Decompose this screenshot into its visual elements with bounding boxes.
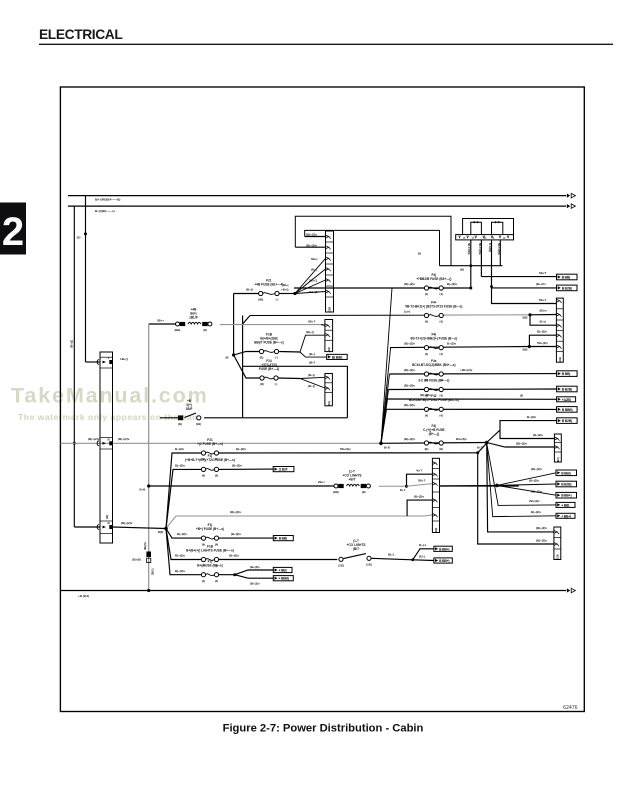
svg-text:BCKLBT-B(-L+2/B2 FUSE (B3—s): BCKLBT-B(-L+2/B2 FUSE (B3—s) <box>409 398 459 402</box>
wire r4 gray row <box>167 515 432 527</box>
wire to X8 pin2 <box>407 484 433 487</box>
wire r3 through to fan3 <box>440 485 519 487</box>
svg-text:(B): (B) <box>260 382 264 386</box>
wire fan2 to T11 <box>487 443 556 505</box>
junction r3 <box>405 485 408 488</box>
pin C of X1 <box>97 525 99 530</box>
svg-text:The watermark only appears on: The watermark only appears on the sam <box>18 412 200 422</box>
svg-text:5B+(: 5B+( <box>311 257 317 261</box>
svg-text:(B)+(2)v: (B)+(2)v <box>404 403 415 407</box>
pin blocks of X1 <box>109 360 112 364</box>
wire to switch S1 <box>160 417 178 419</box>
svg-text:(B(+(): (B(+() <box>306 330 314 334</box>
wire H265 <box>440 265 503 267</box>
wire enclosure box <box>243 366 348 418</box>
svg-text:ELECTRICAL: ELECTRICAL <box>39 27 122 42</box>
svg-text:B3+(2)v: B3+(2)v <box>456 437 467 441</box>
wire fanout to X4 <box>300 335 325 352</box>
bus B+ feed 1 <box>68 195 566 197</box>
svg-text:(B: (B <box>226 356 229 360</box>
svg-text:B BB+): B BB+) <box>439 559 449 563</box>
svg-text:(B+—(): (B+—() <box>429 432 439 436</box>
svg-text:(4): (4) <box>440 320 443 324</box>
svg-text:B B2B): B B2B) <box>562 286 572 290</box>
svg-text:(B+c)/v: (B+c)/v <box>536 282 546 286</box>
svg-text:+B/T: +B/T <box>349 478 356 482</box>
svg-text:(B)+(2)v: (B)+(2)v <box>531 490 542 494</box>
inline coil L2 <box>333 470 370 495</box>
svg-text:(5B): (5B) <box>258 298 263 302</box>
wire fan2 to X6 pin1 <box>500 430 554 439</box>
fuse F43 <box>416 273 451 296</box>
junction R288 <box>469 287 472 290</box>
svg-text:(4): (4) <box>425 292 428 296</box>
connector X1 left column <box>100 352 113 543</box>
wire R409 row <box>387 408 557 410</box>
svg-text:B2B: B2B <box>556 554 560 559</box>
svg-text:B)+(2)v: B)+(2)v <box>175 569 185 573</box>
svg-text:+4B FUSE (B1+—4): +4B FUSE (B1+—4) <box>254 282 283 286</box>
svg-text:(B(+(B(: (B(+(B( <box>132 558 141 562</box>
svg-text:B)B: B)B <box>523 347 528 351</box>
svg-text:(B)+(2)v: (B)+(2)v <box>230 510 241 514</box>
svg-text:4(+T: 4(+T <box>416 469 422 473</box>
svg-text:B+B: B+B <box>140 487 146 491</box>
svg-text:B BB(: B BB( <box>279 537 288 541</box>
svg-text:(+B+B-T+(B+)(+T23 FUSE (B+—s): (+B+B-T+(B+)(+T23 FUSE (B+—s) <box>185 458 235 462</box>
svg-text:(B)+(2)v: (B)+(2)v <box>404 342 415 346</box>
svg-text:TakeManual.com: TakeManual.com <box>11 383 209 408</box>
wire fan3 feeds <box>497 473 556 486</box>
switch S1 <box>178 399 201 426</box>
wire F24 row <box>234 355 260 378</box>
wire r6 row <box>166 529 201 560</box>
svg-text:(B)+(2)v: (B)+(2)v <box>88 437 100 441</box>
wire r3 to junction <box>379 485 407 487</box>
svg-text:(B): (B) <box>362 490 366 494</box>
svg-text:5B-T2(B)v: 5B-T2(B)v <box>497 243 500 255</box>
svg-text:Figure 2-7: Power Distribution: Figure 2-7: Power Distribution - Cabin <box>223 723 424 735</box>
main junction P_fan <box>379 442 383 446</box>
wire R389 row <box>389 388 557 391</box>
svg-text:(B+(2)v: (B+(2)v <box>229 554 239 558</box>
svg-text:B+(2)v: B+(2)v <box>447 342 456 346</box>
svg-text:+7BB2/B FUSE (B3+—(): +7BB2/B FUSE (B3+—() <box>416 277 451 281</box>
terminal box T5 <box>557 397 576 402</box>
fuse F45 <box>411 332 458 355</box>
fuse F44 <box>405 300 462 323</box>
wire outer loop to fuse block <box>295 216 451 266</box>
svg-text:BB)/T FUSE (B+—s): BB)/T FUSE (B+—s) <box>254 340 284 344</box>
wire fuse block drop 2 <box>480 240 482 277</box>
wire fanout to X2 pins <box>295 269 326 294</box>
wire to terminal box T1 <box>481 276 556 278</box>
terminal box T4 <box>557 386 578 392</box>
svg-text:(B/T: (B/T <box>353 547 359 551</box>
wire F21 row <box>234 293 259 295</box>
svg-text:(B)+(2)v: (B)+(2)v <box>121 521 133 525</box>
wire fuse block drop 4 <box>499 240 501 266</box>
svg-text:(B+(2)v: (B+(2)v <box>414 495 424 499</box>
svg-text:5B-T2-BK2(+) (B2T3-3T23 FUSE (: 5B-T2-BK2(+) (B2T3-3T23 FUSE (B—s) <box>405 304 462 308</box>
svg-text:3B+(2): 3B+(2) <box>69 340 73 348</box>
svg-text:+A2B): +A2B) <box>562 398 571 402</box>
svg-text:B)+L: B)+L <box>388 553 395 557</box>
svg-text:(4): (4) <box>440 394 443 398</box>
svg-text:(B)+(2)v: (B)+(2)v <box>404 282 415 286</box>
wire branch to X8 pin3 <box>407 500 432 516</box>
svg-text:(B)+(2)v: (B)+(2)v <box>118 437 130 441</box>
svg-text:(B+(): (B+() <box>308 384 315 388</box>
junction r7 fork <box>233 573 236 576</box>
svg-text:(4): (4) <box>215 474 218 478</box>
wire F1B row <box>234 352 259 356</box>
svg-text:B)B: B)B <box>158 530 163 534</box>
svg-text:5B-T2(B)v: 5B-T2(B)v <box>467 243 470 255</box>
svg-text:B+T: B+T <box>400 488 406 492</box>
svg-text:B2B: B2B <box>558 357 562 362</box>
svg-text:(1 B2F: (1 B2F <box>279 468 288 472</box>
svg-text:+ BB): + BB) <box>279 569 287 573</box>
wire inner loop to X2 pin1 <box>305 236 326 238</box>
connector X3 <box>556 298 563 362</box>
terminal box T1 <box>557 274 578 280</box>
bus arrow <box>567 588 570 592</box>
junction F_L <box>164 527 168 531</box>
svg-text:2B(: 2B( <box>105 515 109 519</box>
wire fuse block drop 3 <box>492 240 557 304</box>
fuse F47 <box>423 424 445 451</box>
pin B of X1 <box>97 441 99 446</box>
svg-text:2B+<: 2B+< <box>318 480 325 484</box>
wire r1 row <box>166 453 201 529</box>
wire switch row to enclosure <box>204 417 347 419</box>
wire to X3 pin5 <box>529 346 556 348</box>
svg-text:(B)+(2)v: (B)+(2)v <box>536 526 547 530</box>
header rule <box>39 43 613 45</box>
svg-text:(B+(): (B+() <box>308 373 315 377</box>
svg-text:B)+(2)v: B)+(2)v <box>531 510 541 514</box>
wire R288 row <box>392 287 471 289</box>
svg-text:(B): (B) <box>425 447 429 451</box>
terminal box B2C <box>327 354 348 359</box>
svg-text:B2B: B2B <box>328 307 332 312</box>
svg-text:+ BB+): + BB+) <box>561 514 571 518</box>
svg-text:B BB+): B BB+) <box>439 547 449 551</box>
svg-text:B2(: B2( <box>327 347 331 351</box>
svg-text:BCKLBT-SC(2)/BBK (B3+—s): BCKLBT-SC(2)/BBK (B3+—s) <box>412 363 455 367</box>
terminal box T2 <box>557 285 578 291</box>
wire bundle <box>381 288 392 443</box>
svg-text:5B+T: 5B+T <box>418 478 425 482</box>
junction T1-ground <box>147 589 150 592</box>
svg-text:(-): (-) <box>275 356 278 360</box>
wire r1 to fan2 <box>478 443 487 453</box>
svg-text:(B+(2)v: (B+(2)v <box>232 463 242 467</box>
svg-text:(BB): (BB) <box>333 490 339 494</box>
terminal box BB1 <box>273 567 292 572</box>
wire fan2 to T12 <box>487 443 556 516</box>
junction W314 <box>528 313 531 316</box>
svg-text:+B (2)4(: +B (2)4( <box>78 594 89 598</box>
connector X6 <box>554 434 561 462</box>
bus arrow <box>567 204 570 208</box>
svg-text:B)+(2)v: B)+(2)v <box>177 532 187 536</box>
svg-text:(1B): (1B) <box>366 562 372 566</box>
connector X8 <box>432 458 439 532</box>
diagram border frame <box>60 87 584 712</box>
svg-text:(B): (B) <box>439 447 443 451</box>
connector X7 <box>554 527 561 560</box>
fuse F4s <box>412 359 455 382</box>
terminal box BB2 <box>273 576 293 581</box>
svg-text:(B)+(2)v: (B)+(2)v <box>420 393 431 397</box>
terminal box T7 <box>557 418 578 424</box>
terminal box T6 <box>557 407 578 413</box>
wire to X3 pin2 <box>530 314 556 316</box>
wire elbow to connector X1 pin 1 <box>86 361 101 363</box>
svg-text:5B+T: 5B+T <box>308 320 315 324</box>
svg-text:62476: 62476 <box>563 705 578 711</box>
svg-text:+B+( FUSE (B+—s): +B+( FUSE (B+—s) <box>196 527 224 531</box>
pin 1 of X1 <box>97 360 99 365</box>
svg-text:5B+T: 5B+T <box>539 298 547 302</box>
svg-text:(B): (B) <box>460 267 464 271</box>
svg-text:B( B(B): B( B(B) <box>332 355 342 359</box>
svg-text:3B(2)v: 3B(2)v <box>143 542 147 550</box>
svg-text:(B+(2)v: (B+(2)v <box>250 565 260 569</box>
fuse F42 <box>409 394 459 417</box>
gray feed wire G1 <box>61 442 382 444</box>
svg-text:B+(-L: B+(-L <box>419 543 427 547</box>
wire T1 elbow <box>149 323 176 325</box>
switch S2 <box>339 557 343 561</box>
junction r1-X7 branch <box>476 451 479 454</box>
fuse F46 <box>418 378 449 397</box>
svg-text:(B+T: (B+T <box>309 361 316 365</box>
wire X8 to fan3 <box>440 484 497 487</box>
wire elbow to connector X1 lower pin <box>74 526 100 528</box>
wire W314 long feed <box>250 314 424 316</box>
terminal box T10 <box>556 492 577 498</box>
terminal box BL2 <box>434 558 452 563</box>
wire R374 row <box>390 373 557 375</box>
gray trunk T1 <box>148 324 150 591</box>
svg-text:4B+(: 4B+( <box>282 283 288 287</box>
svg-text:(B+(2)v: (B+(2)v <box>231 532 241 536</box>
wire outer loop to X2 pin2 <box>295 246 325 248</box>
wire r2 row <box>166 469 201 528</box>
svg-text:FUSE (B+—1): FUSE (B+—1) <box>259 367 279 371</box>
fuse block loop <box>463 219 514 235</box>
svg-text:B BB(): B BB() <box>561 471 570 475</box>
svg-text:B)+(2)v: B)+(2)v <box>447 282 457 286</box>
inline connector on T1 <box>146 552 151 558</box>
wire r5 row <box>166 529 201 539</box>
svg-text:B): B) <box>418 252 421 256</box>
bus arrow <box>567 194 570 198</box>
terminal box T11 <box>556 502 575 507</box>
svg-text:5B+T: 5B+T <box>539 271 546 275</box>
wire R420 row from fan2 <box>487 421 557 443</box>
fuse F13b <box>196 523 224 546</box>
svg-text:(B)+(2)v: (B)+(2)v <box>531 467 542 471</box>
fuse F21b <box>197 438 223 461</box>
svg-text:B BB): B BB) <box>562 276 570 280</box>
svg-text:B B2B): B B2B) <box>562 388 572 392</box>
wire vline B <box>85 196 87 362</box>
svg-text:B(B: B(B <box>434 528 438 533</box>
fuse F24 <box>259 359 279 386</box>
svg-text:(B o(: (B o( <box>540 320 547 324</box>
wire gray to X4 pin1 <box>220 324 321 326</box>
svg-text:B3-L: B3-L <box>419 555 426 559</box>
svg-text:1BL/F: 1BL/F <box>189 316 198 320</box>
fuse F21 <box>254 278 283 301</box>
svg-text:(B)+(2)v: (B)+(2)v <box>516 441 527 445</box>
svg-text:(c)+(: (c)+( <box>404 309 410 313</box>
svg-text:(B)+(2)v: (B)+(2)v <box>404 368 415 372</box>
svg-text:+ BBB): + BBB) <box>279 577 289 581</box>
svg-text:(BB): (BB) <box>175 328 181 332</box>
svg-text:5B+(2)v: 5B+(2)v <box>340 447 351 451</box>
svg-text:(B)+c: (B)+c <box>540 309 548 313</box>
wire vline A <box>73 206 75 527</box>
svg-text:1B+(): 1B+() <box>120 357 128 361</box>
wire to terminal box T2 <box>492 287 557 288</box>
svg-text:(B): (B) <box>178 422 182 426</box>
wire r1 branch to X7 pin2 <box>478 453 554 544</box>
svg-text:2B+(2)v: 2B+(2)v <box>529 499 540 503</box>
wire fuse block drop 1 <box>470 240 472 288</box>
terminal box BL1 <box>434 546 452 551</box>
svg-text:B B2B): B B2B) <box>562 419 572 423</box>
chapter tab 2 <box>0 203 26 255</box>
terminal box B2F <box>273 467 294 472</box>
svg-text:2B(1): 2B(1) <box>151 568 155 575</box>
svg-text:B BB+): B BB+) <box>561 494 571 498</box>
svg-text:B BBB): B BBB) <box>562 408 573 412</box>
wire elbow to X8 pin1 <box>407 474 433 486</box>
svg-text:(B)+(2)v: (B)+(2)v <box>404 437 415 441</box>
wire to X3 pin4 <box>529 335 556 346</box>
svg-text:(B)+(2)v: (B)+(2)v <box>404 383 415 387</box>
connector X2 column <box>326 231 334 312</box>
svg-text:2: 2 <box>2 210 24 254</box>
svg-text:B+B: B+B <box>384 446 390 450</box>
wire r7 row <box>166 529 201 575</box>
svg-text:(4): (4) <box>215 542 218 546</box>
svg-text:B)+(2)v: B)+(2)v <box>236 447 246 451</box>
svg-text:B+(2)v: B+(2)v <box>175 447 184 451</box>
svg-text:(1B): (1B) <box>338 564 344 568</box>
wire X1 to F_L <box>113 527 167 529</box>
svg-text:B3(: B3( <box>556 457 560 461</box>
wire R399 row <box>388 398 557 400</box>
svg-text:(4): (4) <box>202 474 205 478</box>
svg-text:B+(B+(+() LIGHTS FUSE (B+—s): B+(B+(+() LIGHTS FUSE (B+—s) <box>186 548 234 552</box>
svg-text:B BB): B BB) <box>562 372 570 376</box>
svg-text:B B2B): B B2B) <box>561 483 571 487</box>
svg-text:(4): (4) <box>425 414 428 418</box>
junction fan3 <box>495 484 499 488</box>
svg-text:(4): (4) <box>425 352 428 356</box>
svg-text:+B+(): +B+() <box>281 287 289 291</box>
svg-text:(1B): (1B) <box>196 422 201 426</box>
wire fan2 down to X7 pin1 <box>487 443 554 532</box>
svg-text:3-C B3 FUSE (B+—s): 3-C B3 FUSE (B+—s) <box>418 378 449 382</box>
terminal box T12 <box>556 513 575 518</box>
svg-text:1B/F: 1B/F <box>186 407 193 411</box>
svg-text:(B+(2)v: (B+(2)v <box>250 582 260 586</box>
svg-text:(4): (4) <box>215 579 218 583</box>
svg-text:(4): (4) <box>440 352 443 356</box>
wire r3 row <box>149 485 334 487</box>
ground bus <box>61 590 567 592</box>
svg-text:(B)+(2)v: (B)+(2)v <box>536 538 547 542</box>
fuse F13c <box>197 560 223 583</box>
svg-text:(4): (4) <box>202 542 205 546</box>
svg-text:(B+(2)v: (B+(2)v <box>529 478 539 482</box>
terminal box T3 <box>557 371 578 377</box>
svg-text:B-T2(B): B-T2(B) <box>488 243 491 252</box>
svg-text:5O+(2)v: 5O+(2)v <box>537 341 548 345</box>
svg-text:(B+(): (B+() <box>246 287 253 291</box>
svg-text:(B): (B) <box>203 328 207 332</box>
svg-text:(B+(: (B+( <box>309 352 315 356</box>
svg-text:B+(/)(B(——s): B+(/)(B(——s) <box>95 209 115 213</box>
svg-text:B)+(2)v: B)+(2)v <box>175 463 185 467</box>
terminal box T9 <box>556 481 577 487</box>
fuse F1 loop <box>471 222 482 234</box>
connector X4 <box>325 320 333 352</box>
svg-text:+3B+(2)v: +3B+(2)v <box>460 368 473 372</box>
svg-text:(-): (-) <box>276 298 279 302</box>
svg-text:(4): (4) <box>202 579 205 583</box>
svg-text:+(2 FUSE (B+—s): +(2 FUSE (B+—s) <box>197 442 223 446</box>
svg-text:+ BB): + BB) <box>561 503 569 507</box>
svg-text:(B): (B) <box>260 356 264 360</box>
svg-text:B+(2)v: B+(2)v <box>527 415 536 419</box>
wire inner loop to fuse block <box>305 230 440 265</box>
junction F_C <box>232 353 235 356</box>
connector X5 <box>325 374 333 406</box>
svg-text:BA+(RD(B4——B): BA+(RD(B4——B) <box>95 198 120 202</box>
svg-text:B2(: B2( <box>327 401 331 405</box>
svg-text:(4): (4) <box>425 320 428 324</box>
svg-text:(B+(2)v: (B+(2)v <box>533 433 543 437</box>
svg-text:(4): (4) <box>440 292 443 296</box>
svg-text:3B+<: 3B+< <box>157 318 164 322</box>
junction R347 <box>528 345 531 348</box>
fuse block bar <box>456 235 514 240</box>
junction fan2 <box>485 441 489 445</box>
wire R347 row <box>390 347 529 348</box>
svg-text:(4): (4) <box>440 414 443 418</box>
fuse F1B <box>254 332 284 359</box>
inline coil L1 <box>175 308 212 333</box>
svg-text:1: 1 <box>108 356 110 360</box>
wire r7 forks <box>235 570 274 575</box>
wire fanout to X5 <box>300 377 325 378</box>
svg-text:B)B: B)B <box>523 316 528 320</box>
junction F21 out <box>293 292 296 295</box>
fuse F1Bb <box>186 544 234 567</box>
svg-text:5B-T2(B)v: 5B-T2(B)v <box>478 243 481 255</box>
wire fan2 to X6 pin2 <box>487 443 555 448</box>
svg-text:B+( FUSE (B)—s): B+( FUSE (B)—s) <box>197 564 223 568</box>
fuse F2 loop <box>492 222 503 234</box>
